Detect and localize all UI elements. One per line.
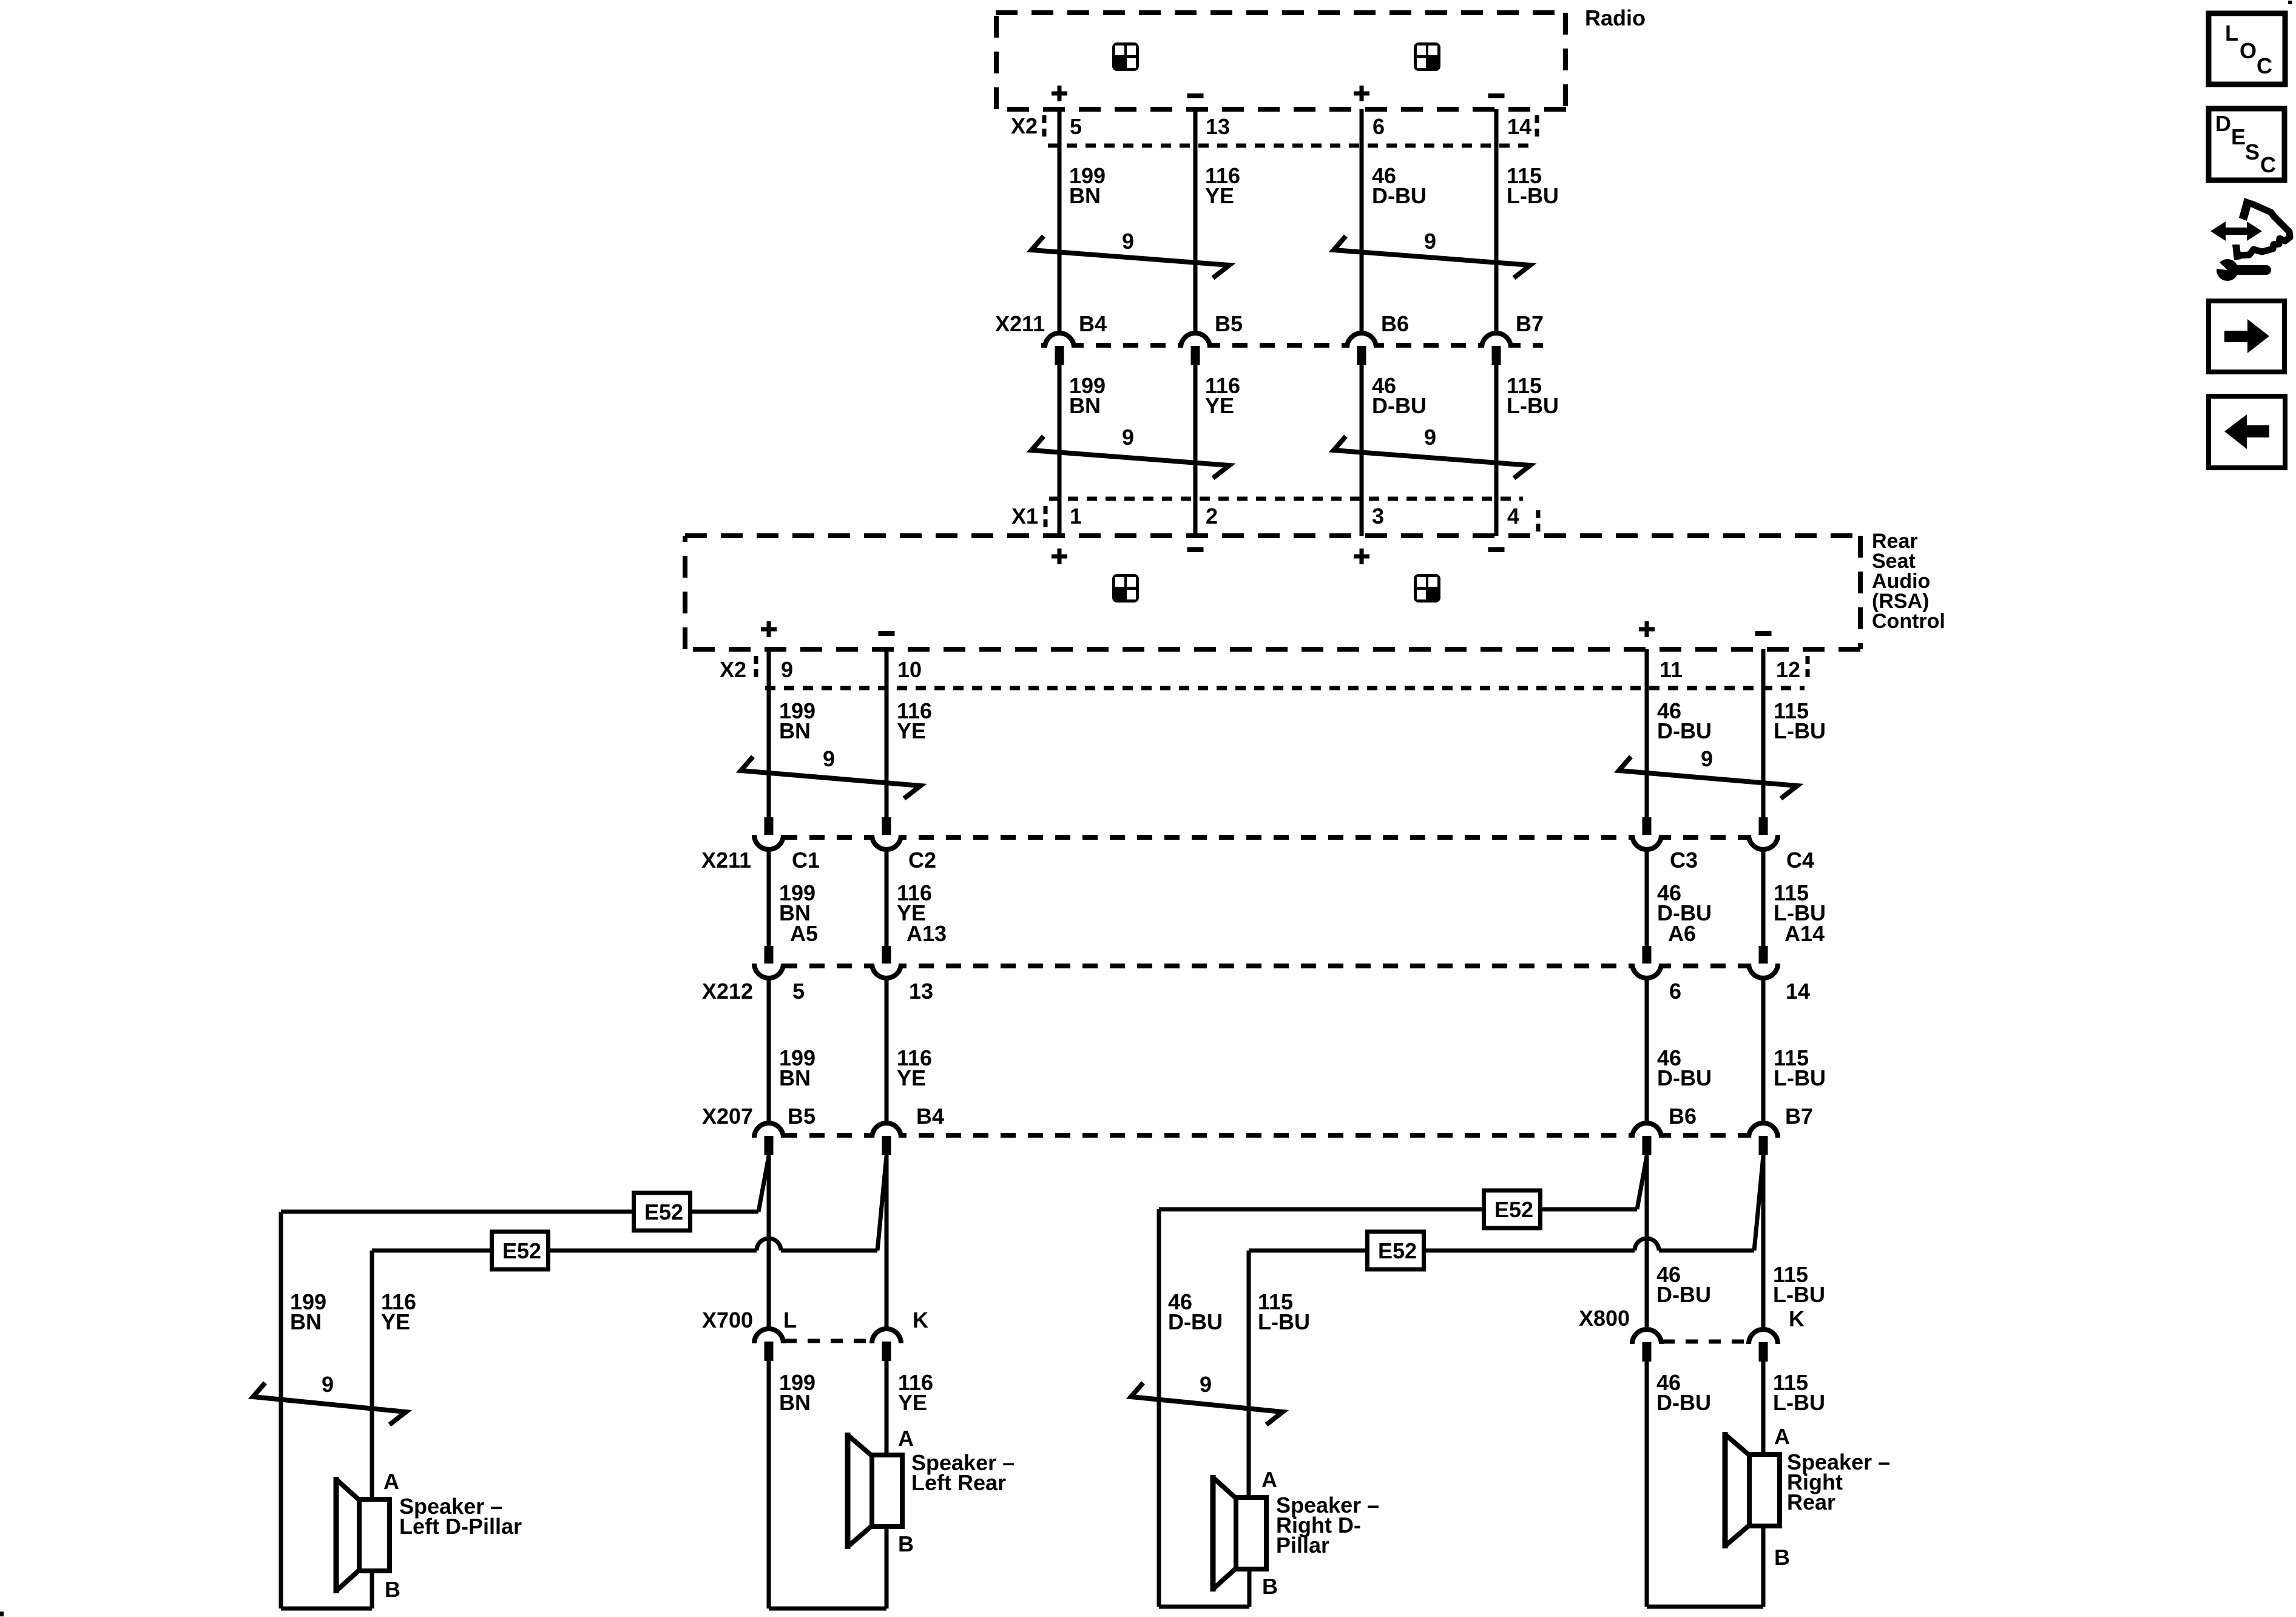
radio right-channel speaker icon (1414, 42, 1440, 71)
svg-text:L-BU: L-BU (1773, 1282, 1825, 1307)
wire 116 YE X211 C2 to X212 A13 (885, 851, 889, 946)
svg-text:A: A (1774, 1424, 1790, 1449)
twisted pair symbol (left, above X1) (1032, 436, 1229, 478)
wire 115 L-BU X212-14 to X207 B7 (1761, 980, 1766, 1121)
svg-text:13: 13 (909, 979, 933, 1004)
connector X211 (row2) pin terminal C3 (1643, 817, 1652, 837)
svg-text:3: 3 (1372, 504, 1384, 528)
wire junction diagonal to E52 line (left 199 BN) (758, 1156, 769, 1212)
wire right D-pillar bottom return (1159, 1605, 1249, 1609)
svg-text:9: 9 (1424, 229, 1436, 254)
wire junction diagonal to E52 line (right 46 D-BU) (1637, 1156, 1647, 1209)
connector X211 (row1) pin terminal B6 (1357, 346, 1366, 365)
wire 199 BN X700 L to speaker B loop (767, 1361, 771, 1609)
svg-text:X212: X212 (702, 979, 753, 1004)
connector X211 (row1) socket B4 (1045, 333, 1074, 348)
svg-text:L-BU: L-BU (1774, 718, 1826, 743)
twisted pair symbol (right, above X1) (1334, 436, 1530, 478)
wire 116 YE RSA X2-10 to X211 C2 (885, 649, 889, 817)
RSA left-channel speaker icon (1112, 574, 1139, 603)
connector X211 (row2) socket C4 (1749, 835, 1778, 849)
connector X212 pin terminal A14 (1759, 946, 1768, 965)
svg-text:14: 14 (1786, 979, 1810, 1004)
twisted pair symbol (RSA right) (1619, 757, 1797, 798)
svg-text:L-BU: L-BU (1507, 183, 1559, 208)
connector X1 dotted line (1049, 497, 1523, 501)
svg-text:BN: BN (779, 1065, 811, 1090)
svg-text:X207: X207 (702, 1104, 753, 1129)
wire 116 YE left drop (370, 1251, 374, 1499)
wire left D-pillar bottom return (281, 1607, 372, 1611)
connector X1 left bracket (1044, 506, 1048, 533)
svg-text:E52: E52 (1378, 1238, 1417, 1263)
wire E52 splice line lower-left (hop over 199 BN) (372, 1249, 757, 1253)
svg-text:X700: X700 (702, 1308, 753, 1332)
svg-text:D-BU: D-BU (1657, 1065, 1712, 1090)
connector X211 (row1) pin terminal B5 (1191, 346, 1200, 365)
svg-text:Pillar: Pillar (1276, 1533, 1329, 1558)
svg-text:O: O (2240, 38, 2257, 63)
wire 115 L-BU X211 B7 to RSA X1-4 (1494, 365, 1499, 536)
svg-text:B4: B4 (1079, 311, 1107, 336)
connector X211 (row2) pin terminal C1 (765, 817, 774, 837)
svg-text:C1: C1 (792, 848, 820, 873)
twisted pair symbol (radio left) (1032, 236, 1229, 278)
svg-text:B: B (1774, 1545, 1790, 1570)
wire 46 D-BU X211 C3 to X212 A6 (1645, 851, 1649, 946)
connector X207 dashed line (755, 1133, 1791, 1138)
minus terminal radio pin 13 (1187, 93, 1204, 98)
svg-text:YE: YE (897, 718, 926, 743)
svg-text:B: B (898, 1531, 914, 1556)
svg-text:C: C (2257, 53, 2272, 78)
connector X207 pin terminal B6 (1643, 1136, 1652, 1155)
sidebar adjust icon (hand with double arrow and wrench) (2239, 198, 2252, 221)
connector X211 (row2) socket C1 (754, 835, 783, 849)
connector X800 pin terminal K (1759, 1342, 1768, 1362)
svg-text:YE: YE (1205, 183, 1234, 208)
connector X212 socket 5 (754, 964, 783, 978)
connector X800 dashed line (1663, 1340, 1750, 1344)
wire 115 L-BU radio pin14 to X211 B7 (1494, 109, 1499, 331)
connector X211 (row1) socket B6 (1347, 333, 1376, 348)
connector X211 (row1) socket B5 (1181, 333, 1210, 348)
splice E52 (upper left) (634, 1193, 690, 1230)
splice E52 (lower right) (1368, 1232, 1424, 1269)
svg-text:X800: X800 (1579, 1306, 1630, 1331)
svg-text:B5: B5 (788, 1104, 815, 1129)
svg-text:A: A (383, 1469, 399, 1494)
svg-text:L-BU: L-BU (1507, 393, 1559, 418)
svg-text:5: 5 (792, 979, 805, 1004)
stray mark bottom-left corner (0, 1612, 4, 1616)
svg-text:11: 11 (1660, 657, 1683, 682)
connector X211 (row1) pin terminal B7 (1492, 346, 1501, 365)
connector X700 pin terminal K (882, 1342, 891, 1361)
speaker Left D-Pillar symbol (359, 1499, 390, 1571)
connector X207 pin terminal B4 (882, 1136, 891, 1155)
wire 115 L-BU X800 K to right rear speaker A (1761, 1362, 1766, 1454)
svg-text:B: B (385, 1577, 400, 1602)
wire 116 YE radio pin13 to X211 B5 (1194, 109, 1198, 331)
speaker Left Rear symbol (872, 1455, 902, 1527)
minus terminal radio pin 14 (1488, 93, 1505, 98)
wire left D-pillar speaker B drop (370, 1571, 374, 1609)
connector X211 (row1) socket B7 (1482, 333, 1511, 348)
svg-text:E: E (2231, 124, 2246, 149)
svg-text:L-BU: L-BU (1258, 1309, 1310, 1334)
plus terminal radio pin 5 (1052, 92, 1067, 96)
wire 115 L-BU X211 C4 to X212 A14 (1761, 851, 1766, 946)
wire junction diagonal to E52 line (right 115 L-BU) (1754, 1156, 1763, 1251)
wire left rear speaker B drop (885, 1527, 889, 1609)
wire 46 D-BU right drop (1157, 1209, 1161, 1607)
wire 115 L-BU right drop (1247, 1251, 1251, 1497)
svg-text:B: B (1262, 1574, 1278, 1599)
minus terminal RSA X1-2 (1187, 547, 1204, 552)
wire right D-pillar speaker B drop (1248, 1570, 1252, 1607)
connector X212 pin terminal A13 (882, 946, 891, 965)
svg-text:S: S (2245, 140, 2260, 164)
svg-text:Left Rear: Left Rear (911, 1470, 1006, 1495)
wire 116 YE X207 B4 to X700 K (885, 1155, 889, 1327)
svg-text:2: 2 (1206, 504, 1218, 528)
connector X207 socket B4 (872, 1123, 901, 1138)
connector X212 socket 6 (1632, 964, 1661, 978)
svg-text:K: K (913, 1308, 928, 1332)
svg-text:D-BU: D-BU (1372, 393, 1427, 418)
svg-text:L-BU: L-BU (1773, 1390, 1825, 1415)
minus terminal RSA X2-12 (1755, 631, 1772, 636)
svg-text:A: A (898, 1426, 914, 1451)
plus terminal RSA X1-1 (1052, 555, 1067, 559)
connector X2 (radio) right bracket (1535, 115, 1539, 142)
connector X207 socket B7 (1749, 1123, 1778, 1138)
svg-text:9: 9 (781, 657, 793, 682)
svg-text:Control: Control (1872, 610, 1945, 633)
svg-text:YE: YE (897, 1065, 926, 1090)
svg-text:9: 9 (1122, 425, 1134, 450)
connector X207 socket B5 (754, 1123, 783, 1138)
connector X2 (RSA) left bracket (754, 656, 758, 683)
wire 115 L-BU RSA X2-12 to X211 C4 (1761, 649, 1766, 817)
svg-text:12: 12 (1776, 657, 1800, 682)
wire 46 D-BU X800 to speaker B loop (1645, 1362, 1649, 1607)
svg-text:X2: X2 (720, 657, 746, 682)
svg-text:X2: X2 (1011, 113, 1038, 138)
svg-text:B7: B7 (1516, 311, 1544, 336)
wire left rear bottom return (769, 1607, 886, 1611)
svg-text:9: 9 (1424, 425, 1436, 450)
svg-text:X211: X211 (701, 848, 751, 873)
wire 46 D-BU X211 B6 to RSA X1-3 (1360, 365, 1364, 536)
svg-text:6: 6 (1669, 979, 1681, 1004)
svg-text:E52: E52 (502, 1238, 541, 1263)
svg-text:E52: E52 (1494, 1197, 1533, 1222)
svg-text:9: 9 (1701, 746, 1713, 771)
svg-text:A: A (1261, 1467, 1277, 1492)
stray mark top-right corner (2288, 1, 2292, 4)
svg-text:C4: C4 (1786, 848, 1814, 873)
wire 116 YE X211 B5 to RSA X1-2 (1194, 365, 1198, 536)
svg-text:6: 6 (1373, 114, 1385, 139)
radio left-channel speaker icon (1112, 42, 1139, 71)
connector X700 socket L (754, 1329, 783, 1343)
connector X211 (row2) pin terminal C4 (1759, 817, 1768, 837)
wire 199 BN X207 B5 to X700 L (767, 1155, 771, 1327)
wire right rear speaker B drop (1761, 1526, 1766, 1607)
splice E52 (upper right) (1484, 1190, 1541, 1228)
wire 199 BN left drop (279, 1212, 283, 1609)
sidebar next-page button (right arrow) (2209, 301, 2284, 372)
svg-text:L-BU: L-BU (1774, 1065, 1826, 1090)
svg-text:D-BU: D-BU (1168, 1309, 1223, 1334)
wire 46 D-BU radio pin6 to X211 B6 (1360, 109, 1364, 331)
svg-text:9: 9 (322, 1372, 334, 1397)
svg-text:A6: A6 (1668, 921, 1696, 946)
connector X800 socket left (1632, 1329, 1661, 1344)
speaker Right D-Pillar symbol (1236, 1497, 1266, 1569)
svg-text:Rear: Rear (1787, 1490, 1835, 1514)
svg-text:BN: BN (1069, 183, 1101, 208)
sidebar LOC button (2209, 13, 2285, 84)
connector X2 (radio) dotted line (1048, 144, 1535, 148)
minus terminal RSA X1-4 (1488, 547, 1505, 552)
svg-text:B4: B4 (916, 1104, 944, 1129)
svg-text:B6: B6 (1669, 1104, 1697, 1129)
svg-text:YE: YE (898, 1390, 927, 1415)
plus terminal RSA X1-3 (1354, 555, 1369, 559)
connector X207 pin terminal B7 (1759, 1136, 1768, 1155)
svg-text:X1: X1 (1011, 504, 1038, 528)
wire 46 D-BU RSA X2-11 to X211 C3 (1645, 649, 1649, 817)
wire 199 BN X211 C1 to X212 A5 (767, 851, 771, 946)
connector X211 (row2) dashed line (755, 835, 1791, 840)
wire 46 D-BU X212-6 to X207 B6 (1645, 980, 1649, 1121)
sidebar DESC button (2209, 109, 2284, 180)
wire 116 YE X212-13 to X207 B4 (885, 980, 889, 1121)
wire E52 splice line lower-right (hop over 46 D-BU) (1249, 1249, 1635, 1253)
svg-text:9: 9 (1200, 1372, 1212, 1397)
connector X212 socket 13 (872, 964, 901, 978)
wire 199 BN radio pin5 to X211 B4 (1058, 109, 1062, 331)
svg-text:D-BU: D-BU (1372, 183, 1427, 208)
RSA right-channel speaker icon (1414, 574, 1440, 603)
svg-text:4: 4 (1507, 504, 1519, 528)
sidebar previous-page button (left arrow) (2209, 396, 2285, 468)
svg-text:YE: YE (381, 1309, 410, 1334)
connector X211 (row1) pin terminal B4 (1055, 346, 1064, 365)
svg-text:9: 9 (823, 746, 835, 771)
connector X2 (RSA) dotted line (765, 686, 1805, 690)
svg-text:13: 13 (1206, 114, 1230, 139)
speaker Right Rear symbol (1749, 1454, 1780, 1526)
connector X800 socket K (1749, 1329, 1778, 1344)
svg-text:9: 9 (1122, 229, 1134, 254)
connector X700 pin terminal L (765, 1342, 774, 1361)
wire 115 L-BU X207 B7 to X800 K (1761, 1155, 1766, 1328)
svg-text:D: D (2215, 111, 2231, 136)
minus terminal RSA X2-10 (879, 631, 895, 636)
svg-text:B6: B6 (1381, 311, 1409, 336)
splice E52 (lower left) (492, 1232, 549, 1269)
twisted pair symbol (radio right) (1334, 236, 1530, 278)
wire right rear bottom return (1647, 1605, 1763, 1609)
wire 199 BN X211 B4 to RSA X1-1 (1058, 365, 1062, 536)
svg-text:K: K (1789, 1306, 1805, 1331)
svg-text:B5: B5 (1215, 311, 1243, 336)
wire E52 splice line upper-right (1159, 1207, 1637, 1212)
wire 116 YE X700 K to left rear speaker A (885, 1361, 889, 1455)
connector X212 socket 14 (1749, 964, 1778, 978)
connector X211 (row2) socket C2 (872, 835, 901, 849)
svg-text:E52: E52 (644, 1200, 683, 1224)
svg-text:X211: X211 (995, 311, 1045, 336)
svg-text:C2: C2 (908, 848, 936, 873)
svg-text:D-BU: D-BU (1657, 718, 1712, 743)
connector X211 (row1) dashed line (1041, 343, 1543, 348)
plus terminal RSA X2-9 (761, 627, 777, 632)
wire 199 BN RSA X2-9 to X211 C1 (767, 649, 771, 817)
svg-text:10: 10 (897, 657, 922, 682)
connector X700 socket K (872, 1329, 901, 1343)
connector X211 (row2) pin terminal C2 (882, 817, 891, 837)
module Radio (dashed box) (996, 10, 1566, 15)
svg-text:BN: BN (779, 718, 811, 743)
svg-text:D-BU: D-BU (1656, 1390, 1711, 1415)
svg-text:C3: C3 (1670, 848, 1698, 873)
svg-text:14: 14 (1507, 114, 1531, 139)
plus terminal radio pin 6 (1354, 92, 1369, 96)
svg-text:1: 1 (1070, 504, 1082, 528)
twisted pair symbol (right D-pillar) (1131, 1383, 1283, 1425)
svg-text:5: 5 (1070, 114, 1082, 139)
wire E52 splice line upper-left (281, 1210, 758, 1214)
connector X212 pin terminal A6 (1643, 946, 1652, 965)
svg-text:Left D-Pillar: Left D-Pillar (399, 1514, 522, 1539)
svg-text:B7: B7 (1785, 1104, 1813, 1129)
wire junction diagonal to E52 line (left 116 YE) (877, 1156, 886, 1251)
connector X207 socket B6 (1632, 1123, 1661, 1138)
svg-text:L: L (783, 1308, 797, 1332)
svg-text:BN: BN (290, 1309, 322, 1334)
plus terminal RSA X2-11 (1639, 627, 1655, 632)
svg-text:C: C (2260, 152, 2276, 177)
wire 46 D-BU X207 B6 to X800 (1645, 1155, 1649, 1328)
svg-text:A13: A13 (907, 921, 947, 946)
svg-text:D-BU: D-BU (1656, 1282, 1711, 1307)
svg-text:BN: BN (779, 1390, 811, 1415)
twisted pair symbol (RSA left) (741, 757, 920, 798)
connector X212 dashed line (755, 964, 1791, 968)
svg-text:BN: BN (1069, 393, 1101, 418)
module Rear Seat Audio Control (dashed box) (685, 533, 1860, 538)
svg-text:L: L (2225, 21, 2238, 46)
connector X1 right bracket (1536, 510, 1541, 537)
connector X2 (RSA) right bracket (1806, 656, 1810, 683)
svg-text:A14: A14 (1784, 921, 1825, 946)
svg-text:A5: A5 (790, 921, 818, 946)
wire 199 BN X212-5 to X207 B5 (767, 980, 771, 1121)
svg-text:Radio: Radio (1585, 5, 1646, 30)
connector X2 (radio) left bracket (1042, 115, 1047, 142)
connector X800 pin terminal left (1643, 1342, 1652, 1362)
connector X212 pin terminal A5 (765, 946, 774, 965)
connector X207 pin terminal B5 (765, 1136, 774, 1155)
connector X700 dashed line (785, 1339, 872, 1343)
twisted pair symbol (left D-pillar) (253, 1383, 406, 1425)
svg-text:YE: YE (1205, 393, 1234, 418)
connector X211 (row2) socket C3 (1632, 835, 1661, 849)
